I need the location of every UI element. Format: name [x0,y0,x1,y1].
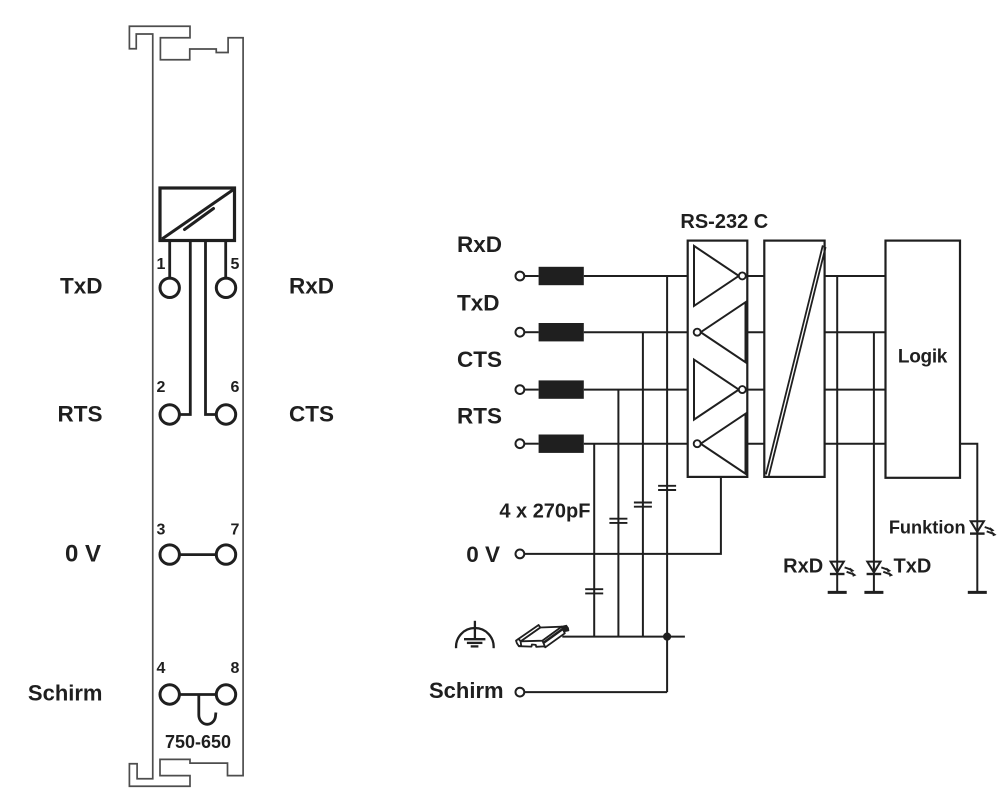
svg-text:TxD: TxD [60,273,103,298]
wire RTS filter to buffer [584,443,688,445]
DIN rail icon [516,625,568,647]
filter resistor TxD [539,323,584,341]
isolator diagonal 1 [766,245,823,474]
svg-text:RxD: RxD [783,555,823,577]
svg-text:Schirm: Schirm [429,678,504,703]
terminal pin 5 [216,278,235,297]
filter resistor CTS [539,380,584,398]
svg-text:4 x 270pF: 4 x 270pF [499,501,590,523]
wire RTS isolator to logic [825,443,886,445]
terminal RxD [516,272,525,281]
wire RxD tap vertical to shield node [666,276,668,692]
wire CTS tap vertical [617,390,619,637]
terminal pin 3 [160,545,179,564]
LED TxD arrows [881,567,893,576]
svg-text:TxD: TxD [457,291,500,316]
LED RxD arrows [845,567,857,576]
svg-text:3: 3 [157,522,166,539]
wire TxD tap vertical [642,332,644,636]
svg-text:7: 7 [231,522,240,539]
svg-text:RxD: RxD [457,232,502,257]
LED Funktion [970,521,985,533]
capacitor C3 270pF (CTS) [609,519,627,523]
inverter circle U1d [694,440,701,447]
wire TxD isolator to logic [825,331,886,333]
terminal pin 8 [216,685,235,704]
svg-text:Logik: Logik [898,347,948,368]
ground bus wire [562,636,685,638]
terminal RTS [516,439,525,448]
svg-text:0 V: 0 V [65,541,101,568]
wire RTS buffer to isolator [747,443,764,445]
isolator diagonal 2 [769,247,826,476]
terminal TxD [516,328,525,337]
terminal pin 1 [160,278,179,297]
svg-text:TxD: TxD [894,555,932,577]
wire RxD buffer to isolator [747,275,764,277]
svg-text:RTS: RTS [58,402,103,427]
wire TxD buffer to isolator [747,331,764,333]
terminal 0V [516,550,525,559]
LED RxD [830,562,845,574]
ground bar Funktion LED [968,591,987,594]
wire pin5 [224,241,227,279]
wire TxD filter to buffer [584,331,688,333]
capacitor C2 270pF (TxD) [634,503,652,507]
shield hook [199,695,216,725]
svg-text:6: 6 [231,379,240,396]
wire 0V row [524,477,721,554]
wire RxD filter to buffer [584,275,688,277]
LED Funktion arrows [985,527,997,536]
svg-text:RS-232 C: RS-232 C [680,211,768,233]
svg-text:1: 1 [157,256,166,273]
wire TxD LED branch [873,332,875,592]
inverter circle U1a [739,272,746,279]
wire RTS tap vertical [593,444,595,637]
wire Schirm row [524,691,667,693]
buffer U1a (RxD receiver) [694,246,739,306]
svg-text:RTS: RTS [457,404,502,429]
terminal pin 6 [216,405,235,424]
terminal pin 4 [160,685,179,704]
module 750-650 outline [129,26,243,786]
RS-232 driver box U1 [688,241,748,477]
galvanic isolator U2 box [764,241,824,477]
wire RxD isolator to logic [825,275,886,277]
svg-text:Funktion: Funktion [889,517,966,537]
svg-text:CTS: CTS [457,347,502,372]
ground bar RxD LED [828,591,847,594]
ground bar TxD LED [864,591,883,594]
filter resistor RTS [539,435,584,453]
svg-text:8: 8 [231,660,240,677]
terminal Schirm [516,688,525,697]
terminal pin 2 [160,405,179,424]
svg-text:750-650: 750-650 [165,732,231,752]
svg-text:RxD: RxD [289,273,334,298]
logic box U3 [886,241,961,478]
inverter circle U1c [739,386,746,393]
svg-text:Schirm: Schirm [28,681,103,706]
wire CTS isolator to logic [825,389,886,391]
wire pin2 [180,241,191,415]
svg-text:CTS: CTS [289,402,334,427]
capacitor C4 270pF (RTS) [585,589,603,593]
inverter circle U1b [694,329,701,336]
capacitor C1 270pF (RxD) [658,486,676,490]
wire pin6 [206,241,217,415]
svg-text:4: 4 [157,660,166,677]
wire shield row pins 4-8 [180,693,217,696]
earth symbol [456,621,494,648]
wire pin1 [168,241,171,279]
filter resistor RxD [539,267,584,285]
wire RxD LED branch [836,276,838,592]
svg-text:5: 5 [231,256,240,273]
svg-text:0 V: 0 V [466,542,500,567]
wire CTS filter to buffer [584,389,688,391]
buffer U1d (RTS driver) [701,414,746,474]
terminal CTS [516,385,525,394]
wire TxD terminal to filter [524,331,538,333]
wire Funktion LED branch [960,444,977,593]
buffer U1b (TxD driver) [701,302,746,362]
wire RTS terminal to filter [524,443,538,445]
terminal pin 7 [216,545,235,564]
LED TxD [867,562,882,574]
wire CTS buffer to isolator [747,389,764,391]
buffer U1c (CTS receiver) [694,360,739,420]
svg-text:2: 2 [157,379,166,396]
junction node shield/bus [663,633,671,641]
wire 0V row pins 3-7 [180,553,217,556]
wire CTS terminal to filter [524,389,538,391]
isolation transformer U0 box [160,188,235,241]
wire RxD terminal to filter [524,275,538,277]
